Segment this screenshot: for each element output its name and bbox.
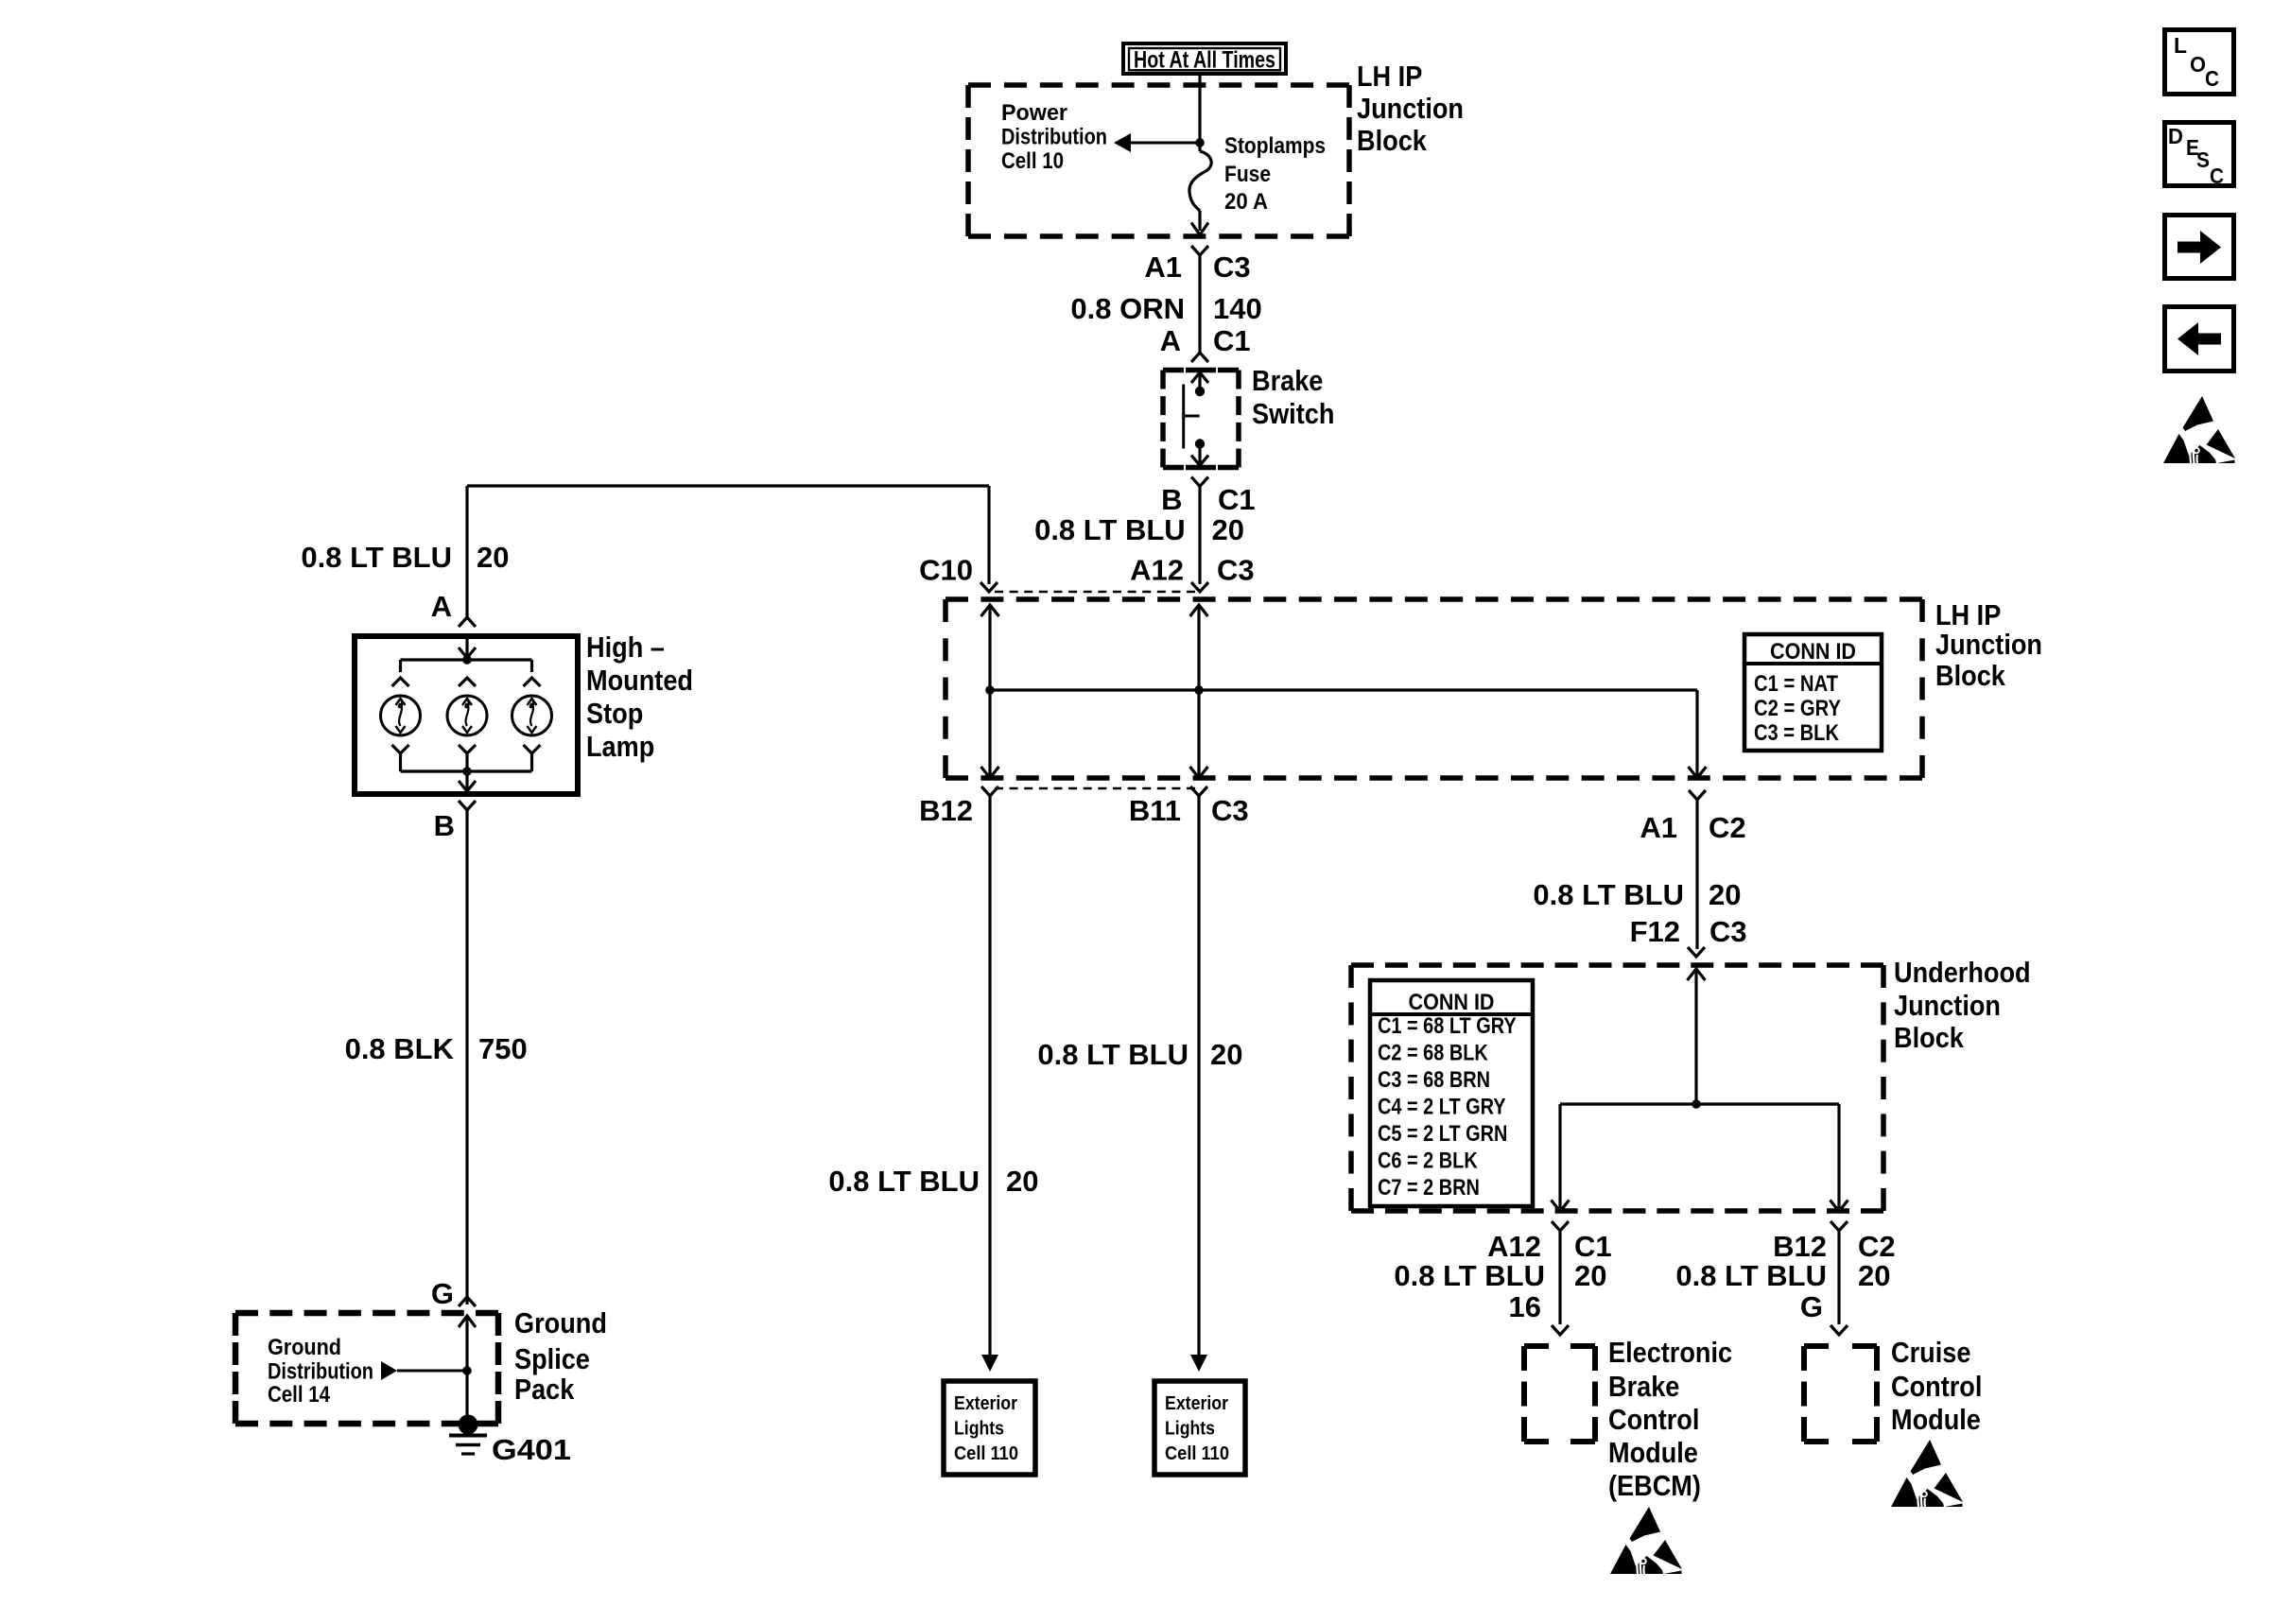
svg-text:Brake: Brake — [1608, 1370, 1679, 1403]
svg-text:C3: C3 — [1211, 794, 1249, 827]
svg-text:Underhood: Underhood — [1894, 956, 2031, 989]
svg-text:20: 20 — [1212, 513, 1244, 546]
svg-text:Cell 10: Cell 10 — [1001, 148, 1064, 174]
svg-text:C: C — [2205, 66, 2219, 91]
svg-text:C1: C1 — [1574, 1230, 1612, 1263]
svg-text:C2 = 68 BLK: C2 = 68 BLK — [1378, 1041, 1488, 1066]
svg-text:C4 = 2 LT GRY: C4 = 2 LT GRY — [1378, 1095, 1506, 1120]
svg-text:C: C — [2210, 164, 2224, 188]
svg-text:A12: A12 — [1130, 554, 1184, 587]
svg-text:C3 = 68 BRN: C3 = 68 BRN — [1378, 1067, 1490, 1093]
svg-text:20 A: 20 A — [1224, 189, 1268, 215]
svg-text:S: S — [2196, 147, 2210, 172]
svg-text:Control: Control — [1891, 1370, 1982, 1403]
svg-text:0.8 BLK: 0.8 BLK — [345, 1032, 455, 1065]
svg-text:140: 140 — [1213, 292, 1262, 325]
svg-text:20: 20 — [1709, 878, 1741, 911]
svg-text:Exterior: Exterior — [954, 1393, 1017, 1414]
svg-text:0.8 LT BLU: 0.8 LT BLU — [1034, 513, 1186, 546]
svg-text:C2 = GRY: C2 = GRY — [1754, 696, 1841, 721]
svg-text:A: A — [431, 590, 452, 623]
svg-text:Block: Block — [1935, 659, 2006, 692]
svg-text:Junction: Junction — [1894, 989, 2001, 1022]
svg-text:Cruise: Cruise — [1891, 1336, 1970, 1369]
svg-text:B12: B12 — [919, 794, 973, 827]
svg-text:Power: Power — [1001, 100, 1067, 126]
svg-text:0.8 LT BLU: 0.8 LT BLU — [1037, 1038, 1189, 1071]
svg-text:C7 = 2 BRN: C7 = 2 BRN — [1378, 1175, 1480, 1201]
svg-text:High –: High – — [586, 631, 665, 664]
svg-text:C3: C3 — [1213, 251, 1251, 284]
svg-text:C1: C1 — [1213, 324, 1251, 357]
svg-text:B12: B12 — [1773, 1230, 1827, 1263]
svg-text:0.8 LT BLU: 0.8 LT BLU — [1533, 878, 1684, 911]
svg-text:F12: F12 — [1630, 915, 1680, 948]
svg-text:B11: B11 — [1129, 794, 1181, 827]
svg-text:Exterior: Exterior — [1165, 1393, 1228, 1414]
svg-text:0.8 LT BLU: 0.8 LT BLU — [828, 1165, 980, 1198]
svg-text:Ground: Ground — [268, 1335, 341, 1360]
svg-text:LH IP: LH IP — [1357, 60, 1422, 93]
svg-text:A1: A1 — [1640, 811, 1677, 844]
svg-text:C1 = 68 LT GRY: C1 = 68 LT GRY — [1378, 1013, 1517, 1039]
svg-text:LH IP: LH IP — [1935, 598, 2001, 631]
svg-text:Control: Control — [1608, 1403, 1699, 1436]
svg-text:Fuse: Fuse — [1224, 162, 1271, 187]
svg-text:C1: C1 — [1218, 483, 1256, 516]
svg-text:Brake: Brake — [1252, 364, 1323, 397]
svg-text:G: G — [431, 1277, 454, 1310]
svg-text:B: B — [434, 809, 455, 842]
svg-text:C3 = BLK: C3 = BLK — [1754, 720, 1840, 746]
svg-text:Pack: Pack — [514, 1373, 575, 1406]
svg-text:L: L — [2174, 33, 2187, 58]
svg-text:O: O — [2190, 52, 2206, 77]
svg-text:20: 20 — [1574, 1259, 1606, 1292]
svg-text:16: 16 — [1509, 1290, 1541, 1323]
svg-text:20: 20 — [1210, 1038, 1242, 1071]
svg-text:Stoplamps: Stoplamps — [1224, 133, 1326, 159]
svg-text:C5 = 2 LT GRN: C5 = 2 LT GRN — [1378, 1121, 1507, 1147]
svg-text:0.8 LT BLU: 0.8 LT BLU — [1675, 1259, 1827, 1292]
svg-text:20: 20 — [477, 541, 509, 574]
svg-text:A: A — [1160, 324, 1181, 357]
svg-text:B: B — [1161, 483, 1182, 516]
svg-text:Lights: Lights — [954, 1419, 1004, 1440]
svg-text:Junction: Junction — [1935, 628, 2042, 661]
svg-text:G: G — [1800, 1290, 1823, 1323]
svg-text:Distribution: Distribution — [268, 1358, 373, 1384]
svg-text:750: 750 — [478, 1032, 528, 1065]
svg-text:0.8 ORN: 0.8 ORN — [1070, 292, 1185, 325]
svg-text:(EBCM): (EBCM) — [1608, 1469, 1701, 1502]
svg-text:Block: Block — [1357, 124, 1428, 157]
svg-text:CONN ID: CONN ID — [1409, 990, 1495, 1015]
svg-text:Lights: Lights — [1165, 1419, 1215, 1440]
svg-text:Cell 14: Cell 14 — [268, 1382, 331, 1408]
svg-text:A12: A12 — [1487, 1230, 1541, 1263]
svg-text:C10: C10 — [919, 554, 973, 587]
svg-text:G401: G401 — [492, 1433, 571, 1466]
svg-text:Splice: Splice — [514, 1342, 590, 1375]
svg-text:Hot At All Times: Hot At All Times — [1134, 47, 1275, 74]
svg-text:C6 = 2 BLK: C6 = 2 BLK — [1378, 1149, 1478, 1174]
svg-text:A1: A1 — [1144, 251, 1182, 284]
svg-text:0.8 LT BLU: 0.8 LT BLU — [301, 541, 452, 574]
svg-text:20: 20 — [1006, 1165, 1038, 1198]
svg-text:Electronic: Electronic — [1608, 1336, 1732, 1369]
svg-text:C3: C3 — [1709, 915, 1747, 948]
svg-text:Block: Block — [1894, 1021, 1965, 1054]
svg-text:Switch: Switch — [1252, 397, 1334, 430]
svg-text:CONN ID: CONN ID — [1770, 639, 1856, 665]
svg-text:0.8 LT BLU: 0.8 LT BLU — [1394, 1259, 1545, 1292]
svg-text:C3: C3 — [1217, 554, 1255, 587]
svg-text:Junction: Junction — [1357, 92, 1464, 125]
svg-text:Cell 110: Cell 110 — [954, 1443, 1018, 1464]
svg-text:C1 = NAT: C1 = NAT — [1754, 671, 1838, 697]
svg-text:Module: Module — [1891, 1403, 1981, 1436]
svg-text:D: D — [2168, 124, 2183, 148]
svg-text:Stop: Stop — [586, 697, 643, 730]
svg-text:C2: C2 — [1709, 811, 1746, 844]
svg-text:Mounted: Mounted — [586, 664, 693, 697]
svg-text:Lamp: Lamp — [586, 730, 654, 763]
svg-text:Ground: Ground — [514, 1306, 607, 1339]
svg-text:Module: Module — [1608, 1436, 1698, 1469]
svg-text:C2: C2 — [1858, 1230, 1896, 1263]
svg-text:Cell 110: Cell 110 — [1165, 1443, 1229, 1464]
svg-text:20: 20 — [1858, 1259, 1890, 1292]
svg-text:Distribution: Distribution — [1001, 124, 1107, 149]
